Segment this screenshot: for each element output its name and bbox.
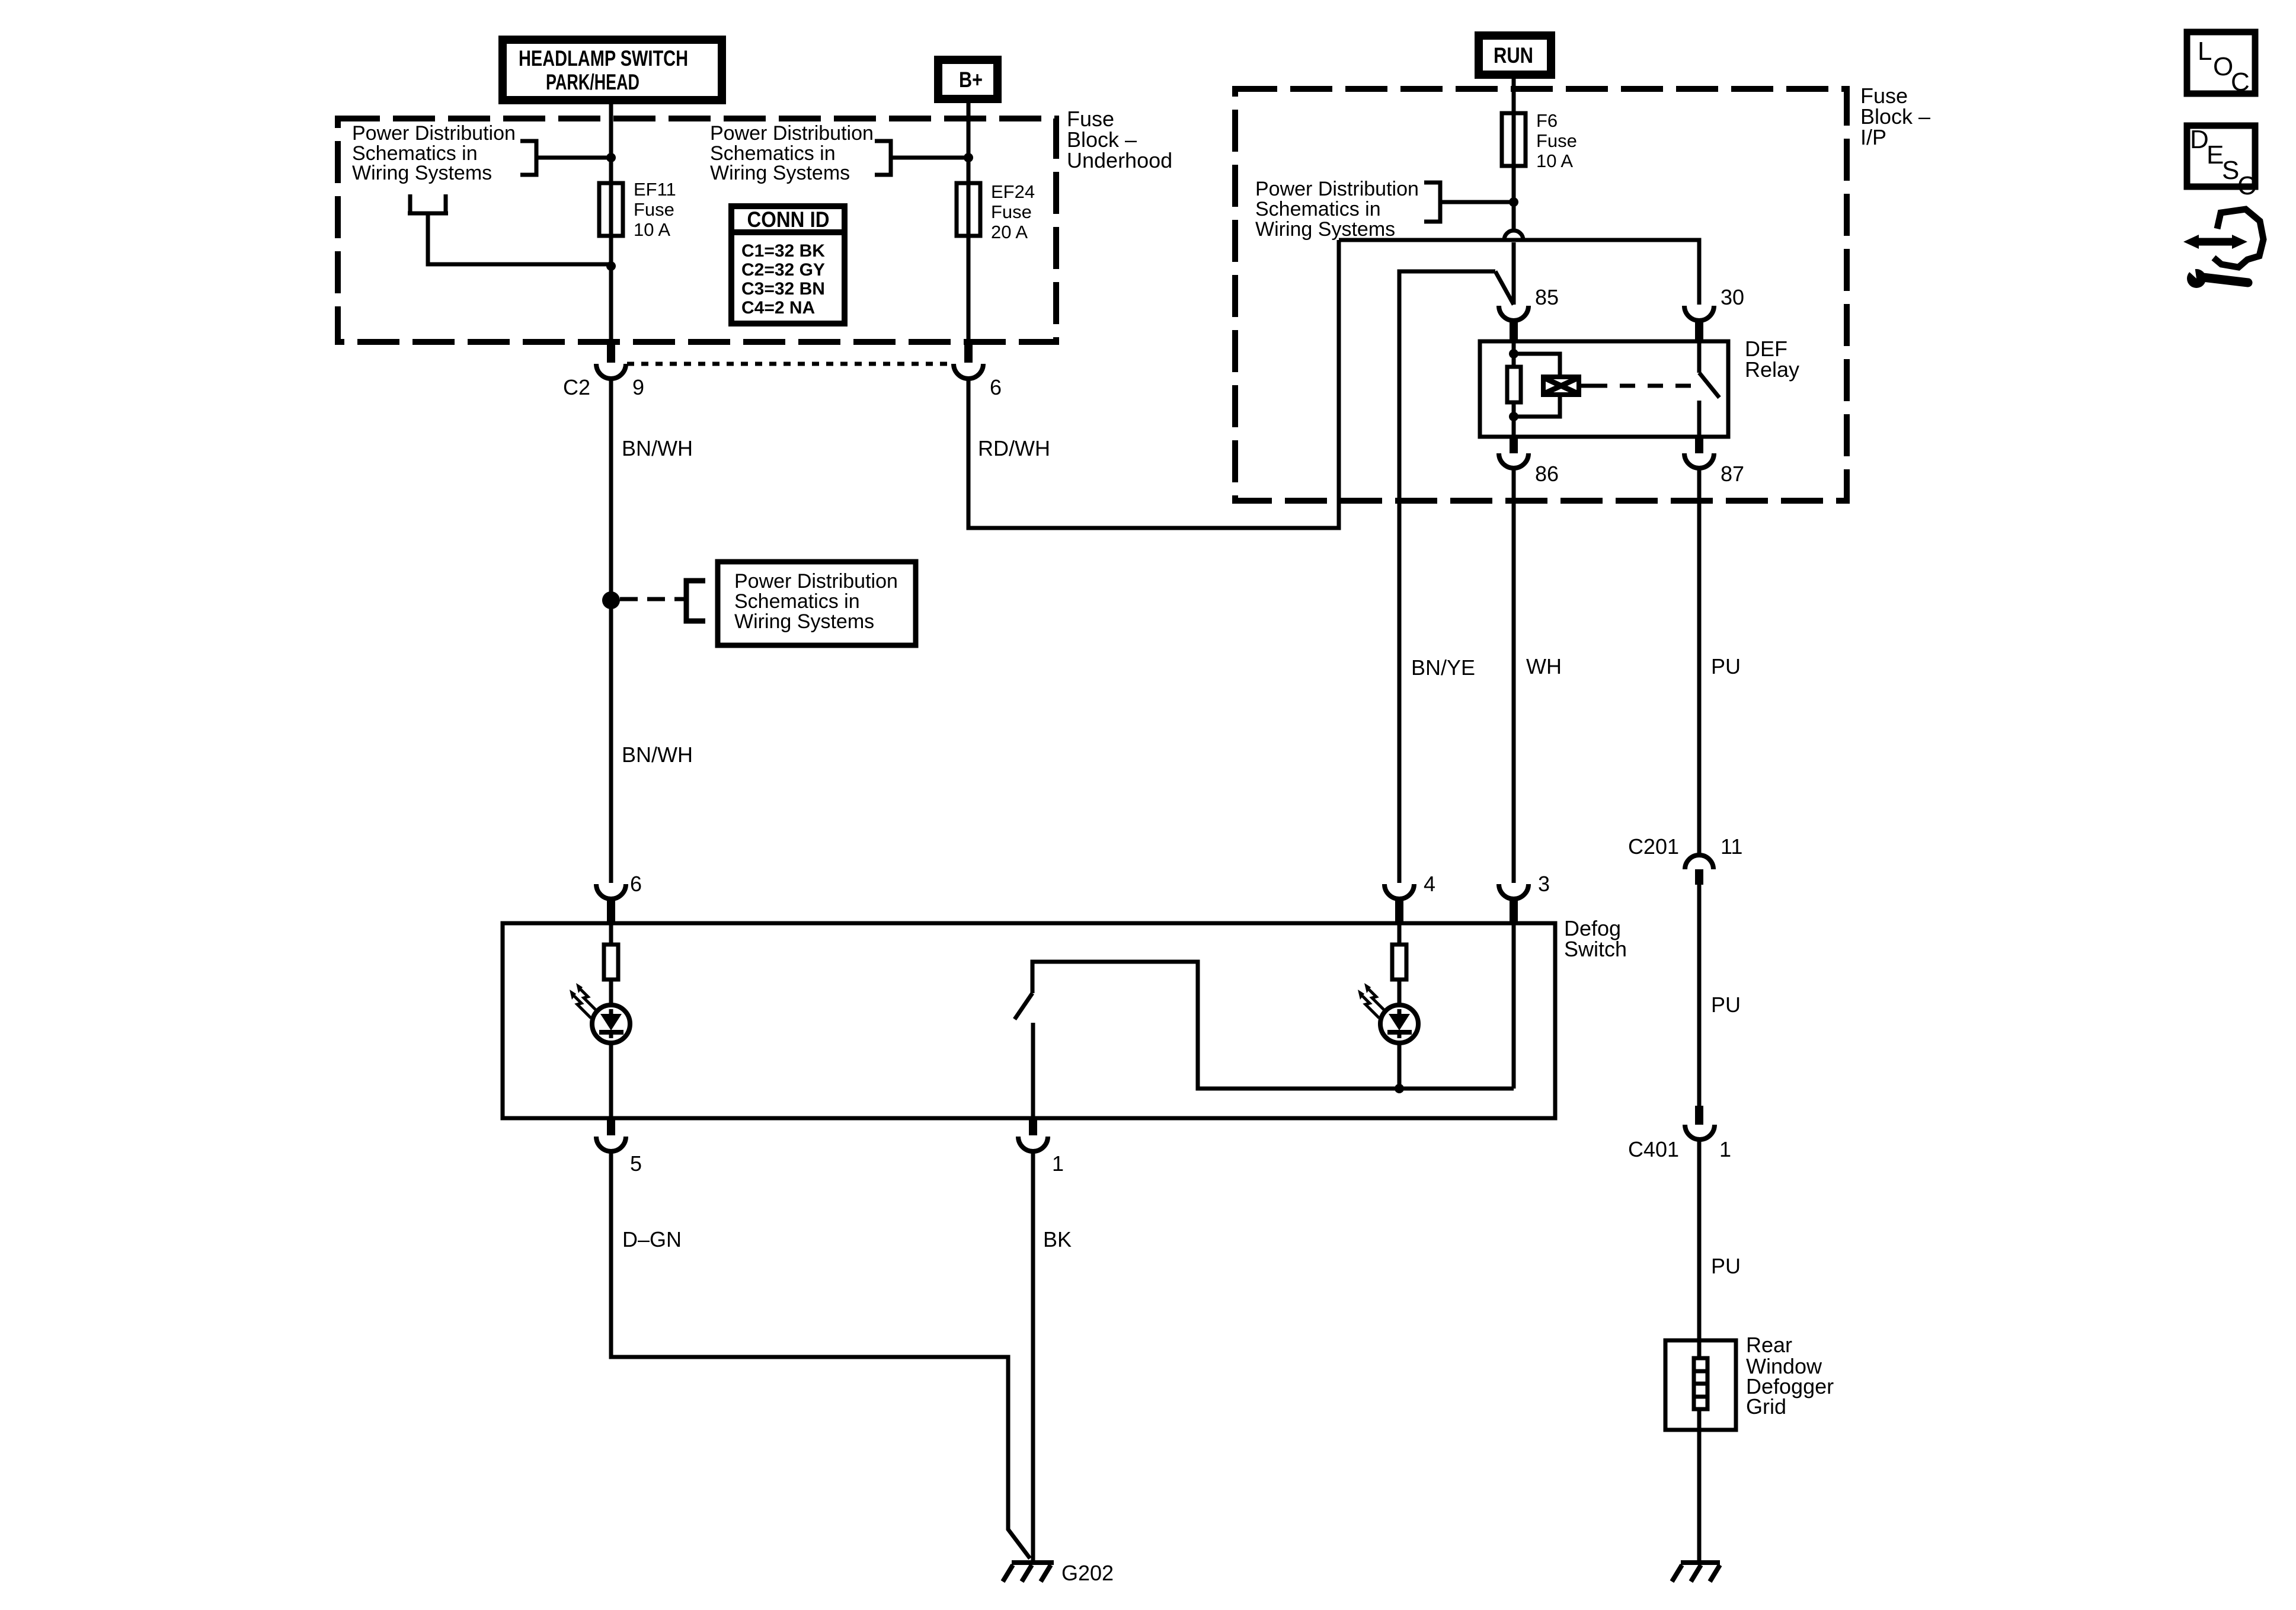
note text: Power Distribution Schematics in Wiring Systems (lower middle) [718, 562, 916, 645]
relay switch blade [1699, 373, 1719, 398]
junction node coil bottom [1509, 412, 1518, 421]
junction node on B+ wire [964, 153, 973, 162]
wire through grid box [1697, 1340, 1702, 1560]
wire: relay output contact to pin 87 [1697, 401, 1702, 438]
connector defog pin 4 [1384, 884, 1414, 923]
connector defog pin 5 [596, 1118, 626, 1151]
bracket for left power distribution note [520, 141, 536, 175]
LED indicator (right) [1380, 1005, 1418, 1043]
svg-text:9: 9 [632, 375, 644, 399]
note text: Power Distribution Schematics in Wiring Systems (I/P) [1255, 178, 1419, 241]
svg-text:PU: PU [1711, 654, 1741, 678]
wire: diagonal branch into pin 85 [1495, 271, 1514, 305]
wire BN/WH: C2-9 down to defog switch pin 6 [609, 379, 613, 883]
svg-text:Wiring Systems: Wiring Systems [710, 162, 850, 184]
svg-text:BN/YE: BN/YE [1411, 655, 1475, 680]
wire D-GN: defog pin 5 to G202 [611, 1151, 1030, 1558]
CONN ID table [731, 206, 845, 324]
wire: defog pin 6 to indicator resistor [609, 923, 613, 943]
wire: fork stem to headlamp wire [428, 215, 611, 264]
fuse EF24 symbol [957, 183, 980, 236]
label EF24 Fuse 20 A [991, 181, 1035, 242]
label F6 Fuse 10 A [1536, 110, 1577, 171]
wire: LED to defog pin 5 [609, 1044, 613, 1118]
svg-text:C4=2 NA: C4=2 NA [741, 298, 815, 318]
wire WH: pin 86 down to defog pin 3 [1512, 468, 1516, 883]
svg-text:Wiring Systems: Wiring Systems [734, 610, 874, 633]
svg-text:Wiring Systems: Wiring Systems [352, 162, 492, 184]
wire: right LED down to switch output rail [1398, 1044, 1402, 1089]
dotted connector tie line C2 to 6 [627, 362, 953, 366]
connector pin 85 [1499, 306, 1528, 340]
svg-text:D–GN: D–GN [622, 1227, 682, 1251]
junction node on F6 output [1509, 197, 1518, 207]
svg-text:S: S [2222, 156, 2239, 185]
defog switch contact: top bar [1032, 962, 1514, 1089]
svg-text:Rear: Rear [1746, 1333, 1792, 1357]
svg-text:L: L [2198, 37, 2212, 66]
crossover hop of F6 wire over contact feed [1504, 231, 1523, 240]
junction node coil top [1509, 349, 1518, 359]
svg-text:Relay: Relay [1745, 357, 1799, 382]
wire: coil bottom to pin 86 [1512, 404, 1516, 438]
component box B+ [938, 60, 997, 99]
svg-text:30: 30 [1721, 285, 1744, 309]
bracket for lower power distribution note [686, 581, 705, 621]
service icon: double arrow, outline and wrench [2182, 209, 2263, 288]
connector C2 pin 9 [596, 342, 626, 379]
connector defog pin 1 [1018, 1118, 1048, 1151]
wire: resistor to LED [609, 981, 613, 1007]
svg-text:E: E [2207, 140, 2224, 169]
bracket for middle power distribution note [875, 141, 891, 175]
wire: branch to winding box bottom [1514, 395, 1560, 417]
wire: winding stub to linkage [1579, 384, 1592, 388]
svg-text:C3=32 BN: C3=32 BN [741, 279, 825, 299]
svg-text:Underhood: Underhood [1067, 148, 1172, 172]
svg-text:85: 85 [1535, 285, 1559, 309]
svg-text:RD/WH: RD/WH [978, 436, 1050, 460]
svg-text:6: 6 [990, 375, 1002, 399]
svg-text:Fuse: Fuse [991, 201, 1032, 222]
light emission arrows (right LED) [1358, 983, 1386, 1018]
svg-text:G202: G202 [1061, 1561, 1114, 1585]
svg-text:5: 5 [630, 1151, 642, 1176]
wire: bracket to headlamp feed [536, 156, 611, 160]
svg-text:Grid: Grid [1746, 1394, 1786, 1419]
svg-text:BK: BK [1043, 1227, 1072, 1251]
svg-text:WH: WH [1526, 654, 1562, 678]
svg-text:Power Distribution: Power Distribution [710, 122, 874, 145]
component box: RUN [1479, 36, 1551, 75]
wire: F6 wire resumes below hop to pin 85 [1512, 242, 1516, 305]
relay winding element box with X [1543, 377, 1579, 395]
connector pin 87 [1684, 438, 1714, 468]
svg-text:EF11: EF11 [634, 179, 676, 200]
defog switch blade [1015, 993, 1032, 1019]
relay DEF Relay box [1480, 341, 1728, 437]
svg-text:D: D [2190, 125, 2209, 154]
wire: pin 30 into switch [1697, 340, 1702, 373]
connector pin 86 [1499, 438, 1528, 468]
bracket for I/P power distribution note [1424, 183, 1440, 222]
wire: defog pin 4 to right resistor [1398, 923, 1402, 943]
label EF11 Fuse 10 A [634, 179, 676, 240]
svg-text:Switch: Switch [1564, 937, 1627, 961]
label Defog Switch [1564, 916, 1627, 961]
svg-text:Schematics in: Schematics in [734, 590, 860, 613]
svg-text:F6: F6 [1536, 110, 1558, 131]
svg-text:Wiring Systems: Wiring Systems [1255, 218, 1395, 241]
light emission arrows (left LED) [570, 983, 597, 1018]
defog switch moving contact to pin 1 [1031, 1023, 1035, 1118]
svg-text:3: 3 [1538, 872, 1550, 896]
svg-text:10 A: 10 A [1536, 151, 1573, 171]
fuse EF11 symbol [599, 183, 623, 236]
svg-text:RUN: RUN [1494, 43, 1533, 68]
wire PU: pin 87 down to C201 [1697, 468, 1702, 855]
label Fuse Block I/P [1860, 84, 1930, 149]
connector C201 pin 11 [1685, 855, 1713, 885]
svg-text:C: C [2231, 68, 2250, 97]
ground symbol (rear defogger) [1672, 1563, 1720, 1582]
wire PU: C401 to defogger grid [1697, 1140, 1702, 1340]
connector pin 30 [1684, 306, 1714, 340]
svg-text:1: 1 [1719, 1137, 1731, 1161]
svg-text:20 A: 20 A [991, 222, 1028, 242]
wire: pin 85 into coil [1512, 340, 1516, 365]
wire: coil feed branch to defog pin 4 [1399, 271, 1495, 883]
connector C401 pin 1 [1685, 1106, 1715, 1140]
svg-text:C401: C401 [1628, 1137, 1679, 1161]
svg-text:Fuse: Fuse [634, 199, 674, 220]
wire: bracket to B+ feed [891, 156, 968, 160]
svg-text:EF24: EF24 [991, 181, 1035, 202]
fuse block underhood dashed box [338, 119, 1056, 342]
svg-text:Power Distribution: Power Distribution [1255, 178, 1419, 200]
label DEF Relay [1745, 337, 1799, 382]
wire: headlamp switch down through EF11 to C2-9 [609, 98, 613, 344]
wire: RUN down through F6 [1512, 73, 1516, 231]
component box HEADLAMP SWITCH PARK/HEAD [503, 40, 722, 100]
connector pin 6 (EF24 output) [954, 342, 983, 379]
defog switch box [503, 923, 1555, 1118]
relay coil resistor [1507, 367, 1521, 402]
svg-text:CONN ID: CONN ID [747, 207, 830, 232]
label Fuse Block Underhood [1067, 107, 1172, 172]
svg-text:10 A: 10 A [634, 219, 670, 240]
fuse block I/P dashed box [1235, 89, 1847, 501]
svg-text:Fuse: Fuse [1536, 130, 1577, 151]
svg-text:C2: C2 [563, 375, 590, 399]
svg-text:86: 86 [1535, 462, 1559, 486]
wire: resistor to right LED [1398, 981, 1402, 1007]
junction node on switch output rail [1395, 1084, 1404, 1093]
grid element symbol [1694, 1358, 1707, 1409]
wire BK: defog pin 1 to G202 [1031, 1151, 1035, 1561]
svg-text:87: 87 [1721, 462, 1744, 486]
resistor (right indicator) [1392, 945, 1406, 980]
svg-text:Power Distribution: Power Distribution [734, 570, 898, 593]
fork terminal symbol [408, 194, 448, 213]
DESC reference box [2187, 125, 2256, 200]
dashed mechanical linkage [1592, 384, 1699, 388]
svg-text:Power Distribution: Power Distribution [352, 122, 516, 145]
LOC reference box [2187, 32, 2255, 97]
label Rear Window Defogger Grid [1746, 1333, 1834, 1419]
junction node on headlamp wire [606, 153, 616, 162]
svg-text:C2=32 GY: C2=32 GY [741, 260, 825, 280]
svg-text:Schematics in: Schematics in [1255, 198, 1381, 220]
resistor (left indicator) [604, 945, 618, 980]
svg-text:PU: PU [1711, 993, 1741, 1017]
note text: Power Distribution Schematics in Wiring Systems (middle) [710, 122, 874, 184]
note text: Power Distribution Schematics in Wiring Systems (left) [352, 122, 516, 184]
wire: defog pin 3 down inside box [1512, 923, 1516, 1089]
connector defog pin 6 [596, 884, 626, 923]
svg-text:11: 11 [1721, 834, 1742, 859]
svg-text:4: 4 [1424, 872, 1435, 896]
wire: branch to winding box top [1514, 354, 1560, 377]
junction node on BN/WH wire [602, 591, 620, 609]
svg-text:C201: C201 [1628, 834, 1679, 859]
wire PU: C201 to C401 [1697, 885, 1702, 1106]
wire: relay contact feed horizontal (RD/WH to pin 30) [1339, 240, 1699, 305]
junction node at EF11 top feed [606, 261, 616, 271]
wire RD/WH: pin 6 down, right, and up into fuse block I/P [968, 240, 1339, 528]
fuse F6 symbol [1502, 113, 1526, 166]
svg-text:I/P: I/P [1860, 125, 1886, 149]
wire: B+ down through EF24 to pin 6 [967, 98, 971, 344]
svg-text:1: 1 [1052, 1151, 1064, 1176]
svg-text:6: 6 [630, 872, 642, 896]
svg-text:BN/WH: BN/WH [622, 436, 693, 460]
ground G202 [1003, 1563, 1054, 1582]
svg-text:PARK/HEAD: PARK/HEAD [546, 70, 639, 94]
dashed tie from BN/WH junction to note bracket [620, 597, 686, 601]
svg-text:C: C [2237, 171, 2256, 200]
svg-text:PU: PU [1711, 1254, 1741, 1278]
svg-text:B+: B+ [959, 68, 983, 92]
svg-text:C1=32 BK: C1=32 BK [741, 241, 825, 261]
wire: bracket to F6 output [1440, 200, 1514, 204]
connector defog pin 3 [1499, 884, 1528, 923]
svg-text:HEADLAMP SWITCH: HEADLAMP SWITCH [519, 46, 688, 71]
LED indicator (left) [592, 1005, 630, 1043]
component box: Rear Window Defogger Grid [1665, 1340, 1736, 1430]
svg-text:BN/WH: BN/WH [622, 742, 693, 767]
